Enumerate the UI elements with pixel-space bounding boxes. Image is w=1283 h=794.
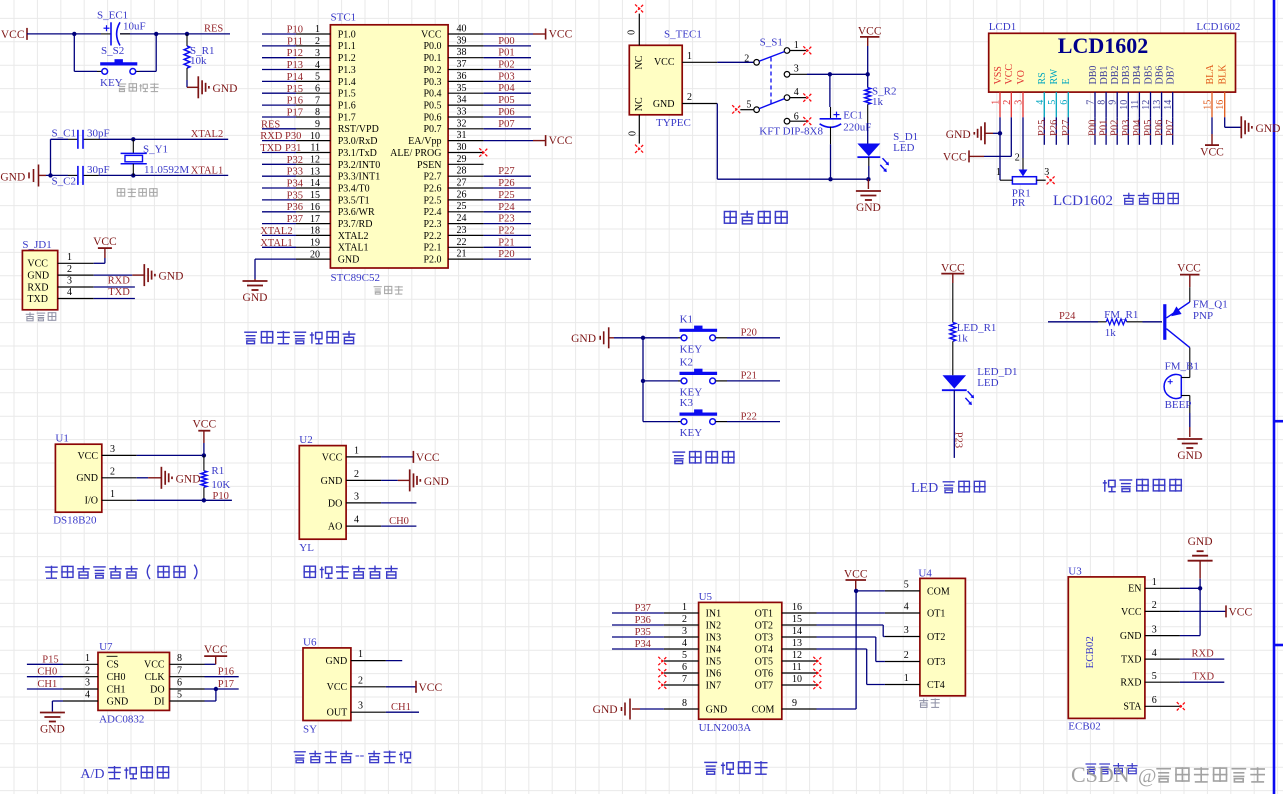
no-connect X (U5 OT5) (813, 657, 821, 665)
svg-text:P04: P04 (1132, 119, 1143, 136)
svg-text:TXD: TXD (1193, 672, 1215, 683)
svg-text:A/D: A/D (80, 767, 104, 782)
svg-text:GND: GND (946, 129, 971, 141)
STC left wires and net labels (260, 25, 304, 249)
label 插座 (919, 698, 940, 707)
svg-text:P37: P37 (635, 603, 651, 614)
svg-text:P11: P11 (287, 36, 303, 47)
svg-text:P34: P34 (635, 639, 652, 650)
svg-text:P3.3/INT1: P3.3/INT1 (338, 172, 381, 183)
svg-text:XTAL1: XTAL1 (260, 238, 292, 249)
no-connect X (S_S1 pin1) (803, 46, 811, 54)
svg-text:P30: P30 (285, 131, 301, 142)
resistor S_R2 1k (865, 74, 897, 143)
no-connect X (S_S1 pin4) (803, 93, 811, 101)
wire OT4 to U4 (817, 649, 885, 685)
svg-text:OT2: OT2 (927, 632, 945, 643)
wire OT2 to U4 (817, 625, 885, 637)
svg-text:4: 4 (315, 60, 320, 71)
svg-text:GND: GND (243, 292, 268, 304)
svg-text:5: 5 (315, 72, 320, 83)
svg-text:I/O: I/O (85, 496, 98, 507)
IC U6 SY body (303, 636, 386, 735)
svg-text:P2.3: P2.3 (423, 219, 441, 230)
svg-text:--: -- (355, 748, 365, 763)
connector S_TEC1 TYPEC body (629, 29, 702, 130)
wire U7 DI (205, 689, 216, 701)
svg-text:CT4: CT4 (927, 680, 945, 691)
svg-text:LED: LED (893, 142, 914, 154)
wire U6 VCC (386, 686, 416, 688)
title 水量检测模块 (303, 566, 397, 579)
svg-text:RS: RS (1037, 72, 1048, 84)
junction U3 EN-GND (1198, 586, 1202, 590)
svg-text:LED: LED (977, 377, 998, 389)
no-connect X (U5 OT7) (813, 681, 821, 689)
svg-text:GND: GND (107, 696, 129, 707)
svg-text:1: 1 (354, 445, 359, 456)
junction crystal top (131, 137, 135, 141)
power port GND (reset) (198, 76, 237, 98)
svg-text:5: 5 (177, 690, 182, 701)
power port VCC (U6) (416, 681, 442, 694)
svg-text:P35: P35 (635, 627, 651, 638)
svg-text:1: 1 (904, 673, 909, 684)
svg-text:GND: GND (213, 83, 238, 95)
svg-text:19: 19 (310, 238, 320, 249)
svg-text:P34: P34 (287, 179, 304, 190)
svg-text:3: 3 (904, 625, 909, 636)
svg-text:ECB02: ECB02 (1084, 636, 1096, 668)
svg-text:GND: GND (856, 202, 881, 214)
svg-text:4: 4 (354, 515, 359, 526)
svg-text:14: 14 (310, 178, 320, 189)
svg-text:P14: P14 (287, 72, 304, 83)
svg-text:6: 6 (315, 84, 320, 95)
svg-text:VCC: VCC (27, 259, 48, 270)
wire U7 CH1 (27, 679, 63, 690)
svg-text:P2.2: P2.2 (423, 231, 441, 242)
wire collector to buzzer (1189, 348, 1191, 427)
svg-text:P13: P13 (287, 60, 303, 71)
wire U3 EN (1180, 587, 1200, 589)
junction EC1 bottom (828, 177, 832, 181)
svg-text:3: 3 (1152, 624, 1157, 635)
svg-text:2: 2 (744, 54, 749, 65)
svg-text:34: 34 (457, 95, 467, 106)
svg-text:7: 7 (315, 95, 320, 106)
svg-text:OT1: OT1 (755, 608, 773, 619)
svg-text:LCD1: LCD1 (989, 21, 1017, 33)
wire U1 GND (137, 477, 148, 479)
svg-text:5: 5 (746, 100, 751, 111)
svg-text:27: 27 (457, 178, 467, 189)
svg-text:IN1: IN1 (706, 608, 722, 619)
svg-text:GND: GND (338, 255, 360, 266)
svg-text:10: 10 (310, 131, 320, 142)
svg-text:28: 28 (457, 166, 467, 177)
svg-text:P1.6: P1.6 (338, 101, 356, 112)
wire OT1 to U4 (817, 612, 885, 614)
svg-text:10K: 10K (211, 479, 230, 491)
svg-text:P22: P22 (498, 225, 514, 236)
svg-text:K1: K1 (680, 313, 693, 325)
svg-text:P2.1: P2.1 (423, 243, 441, 254)
no-connect X (PR1 pin3) (1047, 176, 1055, 184)
svg-text:5: 5 (1152, 671, 1157, 682)
svg-text:ADC0832: ADC0832 (99, 714, 144, 726)
svg-text:P16: P16 (287, 96, 303, 107)
svg-text:12: 12 (310, 155, 320, 166)
title 电源电路 (724, 211, 788, 224)
wire U7 CH0 (27, 667, 63, 678)
svg-text:OT4: OT4 (755, 644, 773, 655)
svg-text:P2.0: P2.0 (423, 255, 441, 266)
svg-text:LCD1602: LCD1602 (1053, 193, 1113, 209)
svg-text:1: 1 (67, 252, 72, 263)
junction U7 DI-DO (214, 687, 218, 691)
svg-text:BEEP: BEEP (1165, 399, 1192, 411)
svg-text:P3.0/RxD: P3.0/RxD (338, 136, 378, 147)
svg-text:P0.2: P0.2 (423, 65, 441, 76)
junction keys K1 (641, 336, 645, 340)
svg-text:AO: AO (328, 522, 342, 533)
svg-text:P1.1: P1.1 (338, 41, 356, 52)
resistor R1 10K (201, 455, 230, 500)
svg-text:@: @ (1138, 765, 1156, 787)
svg-text:29: 29 (457, 154, 467, 165)
IC U4 socket body (885, 567, 966, 696)
title 温度采集模块（防水） (45, 565, 197, 579)
svg-text:3: 3 (682, 626, 687, 637)
wire U5 GND (632, 708, 664, 710)
label 按键复位 (118, 83, 159, 91)
svg-text:35: 35 (457, 83, 467, 94)
svg-text:P03: P03 (498, 71, 514, 82)
svg-text:33: 33 (457, 107, 467, 118)
svg-text:VCC: VCC (844, 568, 868, 580)
svg-text:P20: P20 (741, 328, 757, 339)
svg-text:2: 2 (1015, 153, 1020, 164)
svg-text:5: 5 (904, 580, 909, 591)
no-connect X (U5 OT6) (813, 669, 821, 677)
svg-text:3: 3 (85, 678, 90, 689)
title A/D转换电路 (80, 766, 169, 782)
svg-text:RW: RW (1049, 68, 1060, 84)
svg-text:P0.7: P0.7 (423, 124, 441, 135)
svg-text:9: 9 (792, 698, 797, 709)
junction LCD VSS (998, 131, 1002, 135)
svg-text:P27: P27 (1061, 120, 1072, 136)
IC U2 YL body (299, 434, 381, 554)
svg-text:OT3: OT3 (755, 632, 773, 643)
junction LED GND (866, 177, 870, 181)
wire keys common (614, 338, 643, 422)
svg-text:P23: P23 (498, 214, 514, 225)
label 晶振电路 (117, 188, 158, 196)
svg-text:4: 4 (85, 690, 90, 701)
svg-text:KFT DIP-8X8: KFT DIP-8X8 (759, 125, 823, 137)
svg-text:8: 8 (682, 698, 687, 709)
svg-text:36: 36 (457, 71, 467, 82)
wire U3 VCC (1180, 610, 1226, 612)
svg-text:GND: GND (326, 656, 348, 667)
title 单片机最小系统 (244, 331, 355, 344)
svg-text:39: 39 (457, 35, 467, 46)
svg-text:P0.5: P0.5 (423, 101, 441, 112)
svg-text:15: 15 (310, 190, 320, 201)
svg-text:P15: P15 (287, 84, 303, 95)
svg-text:9: 9 (315, 119, 320, 130)
no-connect X (U5 IN7) (658, 681, 666, 689)
power port GND (U2) (410, 469, 449, 491)
svg-text:U4: U4 (918, 567, 932, 579)
svg-text:DB7: DB7 (1166, 66, 1177, 85)
key switch K2 KEY (643, 356, 717, 398)
svg-text:S_JD1: S_JD1 (22, 239, 51, 251)
svg-text:YL: YL (299, 542, 314, 554)
svg-text:1: 1 (794, 40, 799, 51)
wire U2 VCC (381, 456, 413, 458)
svg-text:32: 32 (457, 118, 467, 129)
svg-text:BLK: BLK (1218, 64, 1229, 85)
title 按键电路 (672, 451, 734, 464)
svg-text:30: 30 (457, 142, 467, 153)
title 蓝牙模块 (1086, 763, 1138, 774)
svg-text:P25: P25 (1037, 120, 1048, 136)
svg-text:30pF: 30pF (87, 128, 110, 140)
svg-text:EN: EN (1128, 584, 1141, 595)
LED LED_D1 (942, 366, 1018, 405)
svg-text:BLA: BLA (1205, 64, 1216, 85)
svg-text:17: 17 (310, 214, 320, 225)
svg-text:31: 31 (457, 130, 467, 141)
STC pins left (296, 24, 380, 265)
svg-text:P15: P15 (42, 654, 58, 665)
svg-text:ALE/ PROG: ALE/ PROG (390, 148, 441, 159)
wire LCD VSS to GND (985, 117, 1000, 133)
svg-text:P24: P24 (498, 202, 515, 213)
capacitor S_EC1 10uF (97, 10, 146, 46)
svg-text:P01: P01 (1099, 120, 1110, 136)
IC U1 DS18B20 body (53, 433, 137, 527)
TYPEC pin2 wire (682, 92, 868, 179)
svg-text:CH0: CH0 (37, 667, 57, 678)
transistor FM_Q1 PNP (1165, 287, 1228, 347)
svg-text:KEY: KEY (680, 343, 703, 355)
svg-text:S_C1: S_C1 (52, 128, 76, 140)
svg-text:P3.6/WR: P3.6/WR (338, 207, 375, 218)
svg-text:2: 2 (85, 665, 90, 676)
svg-text:FM_Q1: FM_Q1 (1193, 298, 1228, 310)
TYPEC pin1 wire (682, 51, 754, 62)
svg-text:24: 24 (457, 213, 467, 224)
key switch K1 KEY (643, 313, 717, 355)
svg-text:OT2: OT2 (755, 620, 773, 631)
svg-text:VCC: VCC (93, 236, 117, 248)
svg-text:16: 16 (792, 602, 802, 613)
svg-text:CH1: CH1 (391, 702, 411, 713)
wire crystal top rail (51, 138, 229, 140)
svg-text:P1.2: P1.2 (338, 53, 356, 64)
svg-text:COM: COM (927, 586, 950, 597)
svg-text:22: 22 (457, 237, 467, 248)
svg-text:GND: GND (653, 99, 675, 110)
svg-text:P10: P10 (213, 491, 229, 502)
wire STC GND pin20 (255, 259, 296, 281)
svg-text:GND: GND (1120, 631, 1142, 642)
svg-text:3: 3 (315, 48, 320, 59)
svg-text:10uF: 10uF (123, 21, 146, 33)
svg-text:CH1: CH1 (37, 679, 57, 690)
svg-text:NC: NC (634, 97, 645, 111)
svg-text:VCC: VCC (549, 29, 573, 41)
svg-text:GND: GND (27, 271, 49, 282)
wire U2 DO (381, 502, 416, 504)
svg-text:16: 16 (310, 202, 320, 213)
svg-text:P12: P12 (287, 48, 303, 59)
power port VCC (JD1) (93, 236, 117, 248)
svg-text:VCC: VCC (1229, 606, 1253, 618)
wire JD1 pin2 to GND (94, 274, 133, 276)
svg-text:P22: P22 (741, 411, 757, 422)
svg-text:P21: P21 (741, 371, 757, 382)
key switch K3 KEY (643, 397, 717, 439)
label 下载口 (26, 312, 57, 321)
wire K2 to P21 (716, 371, 781, 382)
title 声音检测--模拟量 (294, 748, 412, 763)
svg-text:P23: P23 (952, 432, 963, 448)
capacitor S_C2 30pF (52, 164, 110, 188)
svg-text:DB0: DB0 (1088, 66, 1099, 85)
power port GND (STC) (243, 281, 268, 304)
switch S_S1 KFT DIP-8X8 (740, 36, 823, 137)
svg-text:1: 1 (85, 653, 90, 664)
svg-text:P3.1/TxD: P3.1/TxD (338, 148, 377, 159)
wire U6 OUT CH1 (386, 702, 419, 713)
svg-text:2: 2 (687, 92, 692, 103)
svg-text:1k: 1k (872, 96, 884, 108)
svg-text:OT1: OT1 (927, 608, 945, 619)
svg-text:U3: U3 (1068, 566, 1082, 578)
power port VCC (power circuit) (858, 25, 882, 74)
svg-text:XTAL2: XTAL2 (260, 226, 292, 237)
svg-text:LED: LED (911, 481, 938, 496)
svg-text:DS18B20: DS18B20 (53, 514, 97, 526)
svg-text:DB1: DB1 (1099, 66, 1110, 85)
svg-text:DB6: DB6 (1154, 66, 1165, 85)
wire LCD VCC pin2 (969, 117, 1011, 156)
wire U2 AO CH0 (381, 516, 416, 527)
svg-text:TXD: TXD (108, 287, 130, 298)
wire crystal bottom rail (46, 174, 228, 176)
svg-text:K2: K2 (680, 356, 693, 368)
svg-text:VCC: VCC (421, 29, 442, 40)
svg-text:6: 6 (177, 678, 182, 689)
svg-text:DB4: DB4 (1132, 66, 1143, 85)
svg-text:20: 20 (310, 249, 320, 260)
crystal S_Y1 11.0592M (121, 139, 190, 176)
svg-text:P3.5/T1: P3.5/T1 (338, 195, 370, 206)
svg-text:GND: GND (159, 271, 184, 283)
IC U5 ULN2003A body (664, 591, 817, 734)
svg-text:P00: P00 (498, 36, 514, 47)
svg-text:3: 3 (67, 276, 72, 287)
svg-text:P1.3: P1.3 (338, 65, 356, 76)
svg-text:P02: P02 (498, 60, 514, 71)
power port VCC (U7) (204, 644, 228, 664)
svg-text:11: 11 (792, 662, 802, 673)
svg-text:4: 4 (904, 602, 909, 613)
junction crystal bottom-left (48, 173, 52, 177)
svg-text:LCD1602: LCD1602 (1196, 21, 1240, 33)
title 步进电机 (704, 761, 767, 774)
svg-text:PR: PR (1012, 197, 1026, 209)
svg-text:P2.7: P2.7 (423, 172, 441, 183)
STC pins right (390, 24, 484, 266)
svg-text:3: 3 (358, 701, 363, 712)
svg-text:2: 2 (682, 614, 687, 625)
svg-text:1: 1 (687, 51, 692, 62)
buzzer FM_B1 BEEP (1164, 361, 1199, 412)
junction RES/R1 (185, 32, 189, 36)
svg-text:40: 40 (457, 24, 467, 35)
svg-text:VCC: VCC (1004, 64, 1015, 85)
power port VCC (LED) (941, 262, 965, 283)
svg-text:13: 13 (310, 166, 320, 177)
svg-text:TXD: TXD (27, 294, 48, 305)
svg-text:CH1: CH1 (107, 684, 126, 695)
svg-text:DO: DO (328, 498, 342, 509)
svg-text:VCC: VCC (1121, 607, 1142, 618)
power port VCC (reset) (1, 28, 27, 41)
svg-text:3: 3 (354, 491, 359, 502)
svg-text:P33: P33 (287, 167, 303, 178)
svg-text:VCC: VCC (192, 419, 216, 431)
wire U7 CS P15 (27, 654, 63, 665)
svg-text:38: 38 (457, 47, 467, 58)
power port VCC (U4) (844, 568, 868, 591)
capacitor EC1 220uF (820, 74, 872, 179)
wire U7 CLK P16 (205, 667, 239, 678)
svg-text:VCC: VCC (77, 451, 98, 462)
svg-text:8: 8 (177, 653, 182, 664)
power port VCC (U1) (192, 419, 216, 456)
svg-text:RXD: RXD (27, 282, 48, 293)
net label P24 wire (1048, 311, 1098, 322)
power port GND (LCD right) (1241, 116, 1280, 138)
wire LED to P23 (952, 390, 963, 458)
wire U1 I/O P10 (137, 491, 232, 502)
svg-text:5: 5 (682, 650, 687, 661)
svg-text:FM_B1: FM_B1 (1165, 361, 1199, 373)
power port GND (crystal) (0, 165, 46, 187)
svg-text:8: 8 (315, 107, 320, 118)
svg-text:DI: DI (154, 696, 165, 707)
svg-text:CLK: CLK (145, 672, 166, 683)
wire JD1 pin4 TXD (94, 287, 135, 298)
svg-text:P07: P07 (498, 119, 514, 130)
svg-text:21: 21 (457, 249, 467, 260)
wire OT3 to U4 (817, 637, 885, 662)
wire LCD BLK to GND (1225, 117, 1242, 127)
STC right wires and net labels (484, 36, 531, 260)
svg-text:VCC: VCC (144, 660, 165, 671)
wire U3 GND riser (1180, 588, 1200, 635)
svg-text:4: 4 (794, 87, 799, 98)
svg-text:P0.1: P0.1 (423, 53, 441, 64)
power port GND (power circuit) (856, 179, 881, 214)
